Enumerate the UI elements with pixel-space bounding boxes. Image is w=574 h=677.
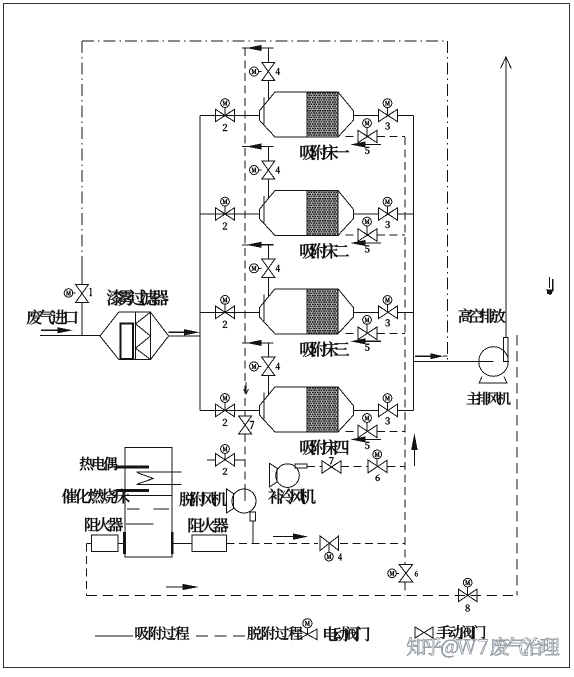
boundary dashed bottom edge	[87, 594, 517, 596]
bed 1 outlet pipe	[354, 115, 379, 117]
boundary dashed right edge	[447, 41, 449, 361]
desorption fan horn	[227, 489, 234, 513]
valve 2 (bed 3)	[216, 306, 226, 319]
desorption flow arrow	[363, 340, 382, 342]
feeder flow arrow	[259, 244, 274, 246]
desorption flow arrow	[363, 144, 382, 146]
filter outlet pipe	[169, 335, 200, 337]
bed 1 inlet baffle	[263, 98, 265, 125]
adsorption bed 3 vessel	[259, 289, 353, 334]
bed label 吸附床二	[301, 243, 350, 259]
valve 7h	[322, 461, 332, 474]
down arrow mark	[549, 277, 551, 288]
bed 4 inlet baffle	[263, 392, 265, 419]
bed 2 outlet pipe	[354, 213, 379, 215]
bed 4 inlet pipe	[200, 409, 259, 411]
legend label 手动阀门	[437, 625, 486, 639]
valve 1 motor M	[64, 289, 73, 298]
main fan base	[479, 376, 507, 382]
cooling fan label 补冷风机	[268, 489, 315, 505]
return flow arrow	[273, 536, 296, 538]
catalytic bed label 催化燃烧床	[62, 489, 130, 504]
right flange bar	[171, 532, 174, 554]
flame arrester L pipes	[118, 543, 123, 545]
bed 1 inlet pipe	[200, 115, 259, 117]
valve 2 number	[223, 321, 227, 328]
valve 5 number	[365, 147, 370, 154]
valve 2 (bed 2)	[216, 208, 226, 221]
valve 3 motor M	[383, 99, 392, 108]
adsorption bed 2 vessel	[259, 191, 353, 236]
bed 2 desorption feeder	[242, 146, 268, 148]
cooling air line (dashed)	[307, 465, 322, 467]
valve 1 (fresh air)	[75, 284, 88, 293]
valve 2 (bed 4)	[216, 404, 226, 417]
boundary dashed left edge	[81, 41, 83, 268]
valve 3 (bed 4)	[379, 404, 389, 417]
catalyst bed line	[125, 495, 172, 497]
bed 3 desorption outlet (dashed)	[346, 332, 359, 334]
bottom flow arrow	[166, 586, 186, 588]
feeder flow arrow	[259, 47, 274, 49]
legend solid line	[95, 635, 133, 637]
desorption return manifold (dashed x405)	[404, 137, 406, 564]
upward flow arrow	[413, 447, 415, 466]
valve 6b number	[415, 571, 418, 577]
valve 6b motor M	[388, 569, 397, 578]
valve 1 riser	[81, 268, 83, 284]
desorption flow arrow	[363, 438, 382, 440]
legend label 脱附过程	[248, 626, 303, 640]
desorption supply manifold (dashed x245)	[244, 48, 246, 416]
valve 4 (return bypass)	[320, 536, 329, 550]
valve 4 motor M	[250, 67, 259, 76]
flame arrester R link	[174, 543, 192, 545]
valve 8 number	[466, 605, 470, 612]
valve 3 number	[385, 417, 390, 424]
valve 5 (bed 3)	[358, 327, 368, 340]
valve 2 number	[223, 124, 227, 131]
thermocouple label 热电偶	[80, 457, 118, 471]
valve 4 (bed 1)	[262, 62, 275, 71]
valve 4 (bed 2)	[262, 161, 275, 170]
waste gas inlet label 废气进口	[27, 310, 78, 325]
bed 2 inlet baffle	[263, 196, 265, 223]
cooling fan circle	[276, 464, 300, 488]
valve 3 motor M	[383, 394, 392, 403]
bed 1 adsorbent hatch	[307, 92, 338, 137]
legend label 吸附过程	[136, 626, 190, 640]
valve 6 (cooling)	[368, 460, 378, 473]
legend dashed line	[196, 635, 246, 637]
filter outlet arrow	[169, 331, 187, 333]
valve 3 motor M	[383, 296, 392, 305]
flow arrow to fan	[415, 355, 433, 357]
filter zigzag	[136, 312, 151, 359]
legend manual valve symbol	[415, 627, 424, 638]
thermocouple zigzag	[138, 473, 154, 484]
main fan inlet pipe	[413, 360, 493, 362]
stack arrowhead	[501, 57, 512, 69]
desorption fan outlet	[250, 512, 256, 521]
valve 5 number	[365, 344, 370, 351]
bed 4 desorption feeder	[242, 342, 268, 344]
boundary dashed lower-right edge	[516, 335, 518, 595]
valve 6b (vertical)	[399, 565, 412, 574]
exhaust stack pipe	[505, 58, 507, 337]
valve 2 motor M	[221, 394, 230, 403]
bed 3 inlet pipe	[200, 311, 259, 313]
cooling fan horn	[270, 463, 277, 486]
valve 3 (bed 1)	[379, 109, 389, 122]
bed label 吸附床四	[301, 440, 349, 455]
valve 1 number	[90, 288, 93, 296]
bed 2 adsorbent hatch	[307, 191, 338, 236]
bed 2 inlet pipe	[200, 213, 259, 215]
valve 7 (manifold, vertical)	[239, 416, 252, 425]
filter right wall	[150, 312, 152, 359]
boundary stub	[443, 355, 448, 357]
catalyst half line	[126, 523, 153, 525]
valve 5 motor M	[363, 414, 372, 423]
flame arrester label R 阻火器	[189, 518, 229, 533]
manifold down arrow	[245, 382, 247, 394]
bed 2 desorption outlet (dashed)	[346, 234, 359, 236]
valve 4 number	[276, 363, 280, 370]
desorption return run (dashed)	[227, 543, 319, 545]
clean air manifold (left)	[199, 116, 201, 411]
valve 4 number	[276, 68, 280, 75]
valve 2 (bed 1)	[216, 109, 226, 122]
valve 5 motor M	[363, 217, 372, 226]
inlet flow arrow	[41, 329, 61, 331]
flame arrester L drop (dashed)	[86, 544, 88, 596]
cooling fan outlet	[295, 464, 307, 468]
valve 2 motor M	[221, 197, 230, 206]
valve 4 number	[276, 167, 280, 174]
desorption flow arrow	[363, 242, 382, 244]
bed 3 outlet pipe	[354, 311, 379, 313]
valve 8 (bottom)	[458, 589, 467, 602]
valve 2 motor M	[221, 445, 230, 454]
valve 2 (makeup air)	[216, 454, 226, 467]
filter divider	[135, 312, 137, 359]
bed 3 inlet baffle	[263, 294, 265, 321]
valve 4 number	[338, 554, 342, 561]
valve 3 (bed 2)	[379, 208, 389, 221]
valve 7h number	[329, 457, 333, 464]
valve 4 motor M	[250, 166, 259, 175]
bed 3 desorption feeder	[242, 244, 268, 246]
valve 4 motor M	[250, 362, 259, 371]
fresh air valve 2 stub	[207, 459, 216, 461]
valve 7 number	[250, 421, 254, 429]
main fan outlet duct	[504, 337, 509, 361]
valve 3 number	[385, 123, 390, 130]
inlet pipe	[40, 335, 100, 337]
adsorption bed 1 vessel	[259, 92, 353, 137]
adsorption bed 4 vessel	[259, 387, 353, 432]
catalyst leader bar	[116, 489, 149, 492]
feeder flow arrow	[259, 342, 274, 344]
bed 1 desorption feeder	[242, 47, 268, 49]
filter label 漆雾过滤器	[107, 290, 169, 306]
valve 5 (bed 4)	[358, 425, 368, 438]
valve 8 motor M	[463, 578, 472, 587]
valve 2 number	[223, 468, 227, 474]
catalytic bed vessel	[125, 447, 172, 557]
bed 4 adsorbent hatch	[307, 387, 338, 432]
valve 2 number	[223, 223, 227, 230]
valve 3 number	[385, 221, 390, 228]
stack label 高空排放	[459, 309, 506, 323]
valve 2 number	[223, 419, 227, 426]
valve 5 (bed 2)	[358, 229, 368, 242]
bed 3 adsorbent hatch	[307, 289, 338, 334]
valve 8 riser	[467, 587, 469, 596]
filter element rect	[121, 324, 134, 360]
valve 4 (bed 4)	[262, 357, 275, 366]
flame arrester label L 阻火器	[85, 517, 123, 531]
filter vessel body	[100, 312, 169, 359]
valve 4 motor M	[250, 264, 259, 273]
boundary dashed top edge	[82, 40, 448, 42]
main fan label 主排风机	[467, 392, 511, 405]
bed label 吸附床一	[301, 145, 350, 160]
valve 2 motor M	[221, 99, 230, 108]
valve 6 number	[376, 475, 380, 482]
left flange bar	[123, 532, 126, 554]
desorption fan circle	[232, 489, 256, 513]
flame arrester box R	[192, 535, 227, 551]
legend electric valve symbol	[298, 629, 308, 639]
thermocouple probe lines	[137, 471, 182, 473]
watermark	[407, 637, 559, 657]
valve 3 number	[385, 319, 390, 326]
valve 4 (bed 3)	[262, 259, 275, 268]
valve 4 number	[276, 265, 280, 272]
valve 5 motor M	[363, 316, 372, 325]
desorption fan label 脱附风机	[180, 492, 227, 507]
valve 5 motor M	[363, 119, 372, 128]
valve 3 (bed 3)	[379, 306, 389, 319]
clean outlet manifold (x413)	[412, 116, 414, 411]
catalyst broken line	[127, 508, 140, 510]
main fan circle	[479, 347, 509, 377]
legend label 电动阀门	[324, 626, 369, 641]
valve 4 motor M	[325, 552, 334, 561]
thermocouple leader bar	[116, 466, 149, 469]
valve 6 motor M	[373, 450, 382, 459]
desorption fan drop	[252, 521, 254, 543]
valve 5 number	[365, 442, 370, 449]
bed 4 desorption outlet (dashed)	[346, 430, 359, 432]
valve 5 number	[365, 246, 370, 253]
bed label 吸附床三	[301, 341, 350, 357]
bed 4 outlet pipe	[354, 409, 379, 411]
feeder flow arrow	[259, 146, 274, 148]
bed 1 desorption outlet (dashed)	[346, 136, 359, 138]
valve 2 motor M	[221, 296, 230, 305]
valve 5 (bed 1)	[358, 130, 368, 143]
valve 3 motor M	[383, 197, 392, 206]
flame arrester box L	[91, 535, 118, 552]
